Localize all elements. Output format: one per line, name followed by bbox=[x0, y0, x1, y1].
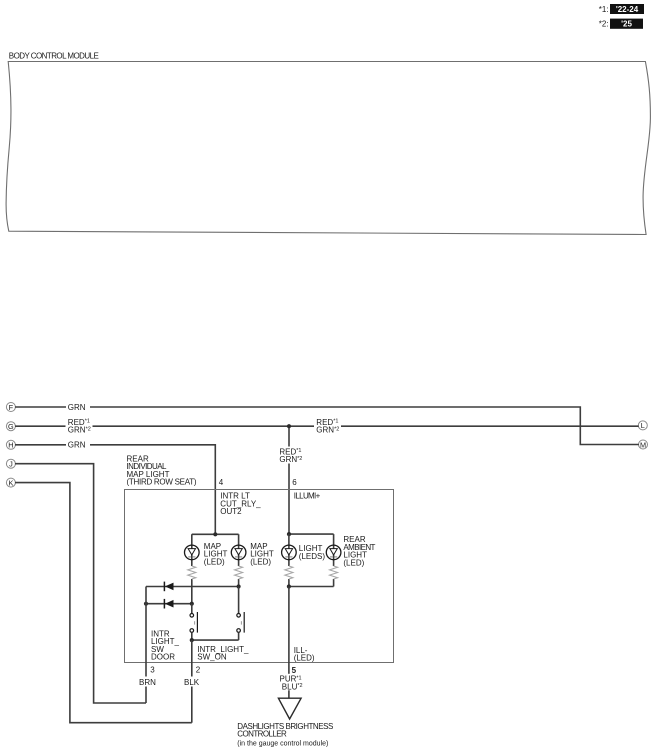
svg-text:GRN: GRN bbox=[68, 441, 86, 450]
junction node ill bus bbox=[287, 584, 291, 588]
on switch SW_ON bbox=[237, 587, 244, 641]
note *2 value box '25 bbox=[610, 19, 643, 29]
wire junction to pin 6 (RED/GRN) bbox=[288, 426, 290, 534]
connector pin F bbox=[6, 403, 15, 412]
junction node lamp1/diode2 bbox=[190, 602, 194, 606]
pin 3 number bbox=[150, 666, 155, 675]
svg-text:(LED): (LED) bbox=[294, 654, 315, 663]
wire illumi bus bbox=[289, 533, 334, 535]
rear individual map light module box bbox=[125, 490, 394, 663]
svg-text:3: 3 bbox=[150, 666, 155, 675]
resistor lamp1 bbox=[188, 566, 196, 579]
svg-text:OUT2: OUT2 bbox=[220, 507, 242, 516]
svg-text:6: 6 bbox=[292, 478, 297, 487]
connector pin M bbox=[639, 440, 648, 449]
wire label RED*1 GRN*2 (pin 6 drop) bbox=[278, 447, 304, 465]
svg-text:K: K bbox=[8, 478, 13, 487]
wire J to BRN pin 3 bbox=[15, 464, 146, 703]
wire label GRN (H) bbox=[66, 440, 90, 450]
connector pin L bbox=[638, 421, 647, 430]
junction node pin6 bus bbox=[287, 532, 291, 536]
pin 2 number bbox=[196, 666, 201, 675]
label INTR LIGHT_ SW DOOR bbox=[151, 629, 180, 661]
light (LEDS) lamp bbox=[282, 545, 297, 560]
wire diode row 1 bbox=[146, 586, 239, 588]
svg-text:BLK: BLK bbox=[184, 678, 200, 687]
map light 2 (LED) lamp bbox=[231, 545, 246, 560]
svg-text:2: 2 bbox=[196, 666, 201, 675]
svg-text:(in the gauge control module): (in the gauge control module) bbox=[237, 740, 328, 747]
svg-text:BODY CONTROL MODULE: BODY CONTROL MODULE bbox=[9, 52, 99, 61]
svg-text:F: F bbox=[9, 403, 14, 412]
resistor lamp3 bbox=[285, 566, 293, 579]
junction node diode2 left bbox=[144, 602, 148, 606]
dashlights brightness controller symbol bbox=[278, 698, 301, 719]
wire G to L (RED/GRN) bbox=[15, 425, 639, 427]
wire map light bus bbox=[192, 533, 239, 535]
svg-text:GRN: GRN bbox=[68, 403, 86, 412]
wire label GRN (F) bbox=[66, 402, 90, 412]
svg-text:M: M bbox=[640, 440, 646, 449]
resistor lamp4 bbox=[330, 566, 338, 579]
wire K to BLK pin 2 bbox=[15, 483, 192, 723]
label MAP LIGHT (LED) 1 bbox=[204, 542, 228, 566]
label MAP LIGHT (LED) 2 bbox=[250, 542, 274, 566]
connector pin G bbox=[6, 422, 15, 431]
svg-text:(LEDS): (LEDS) bbox=[299, 552, 326, 561]
wire lamp2 leads bbox=[238, 534, 240, 586]
svg-text:(LED): (LED) bbox=[343, 558, 364, 567]
diode D1 bbox=[164, 582, 173, 592]
wire lamp1 leads bbox=[191, 534, 193, 603]
label INTR_LIGHT_ SW_ON bbox=[197, 645, 249, 662]
wire lamp4 leads bbox=[333, 534, 335, 586]
wire pin 2 BLK vertical bbox=[191, 640, 193, 723]
svg-text:BRN: BRN bbox=[139, 678, 156, 687]
connector pin K bbox=[6, 478, 15, 487]
label LIGHT (LEDS) bbox=[299, 544, 326, 561]
svg-text:'25: '25 bbox=[621, 20, 632, 29]
svg-text:H: H bbox=[8, 441, 13, 450]
junction node switch bus bbox=[190, 638, 194, 642]
note *1 value box '22-24 bbox=[610, 4, 644, 14]
svg-text:J: J bbox=[9, 460, 13, 469]
wire H to pin 4 (GRN) bbox=[15, 445, 215, 535]
wire label BRN bbox=[137, 677, 159, 687]
pin 4 number bbox=[219, 478, 224, 487]
svg-text:L: L bbox=[641, 421, 645, 430]
svg-text:G: G bbox=[8, 422, 14, 431]
pin 5 number bbox=[292, 666, 297, 675]
door switch SW_DOOR bbox=[190, 604, 197, 640]
label ILL- (LED) bbox=[294, 646, 315, 663]
svg-text:*2:: *2: bbox=[599, 19, 609, 28]
wire F to M (GRN) bbox=[15, 407, 639, 445]
wire leds bottom bus bbox=[289, 586, 334, 588]
junction node on wire G bbox=[287, 424, 291, 428]
junction node lamp2/diode1 bbox=[237, 584, 241, 588]
wire label PUR*1 BLU*2 bbox=[278, 674, 303, 692]
net label ILLUMI+ bbox=[294, 492, 321, 501]
map light 1 (LED) lamp bbox=[185, 545, 200, 560]
wire lamp3 leads bbox=[288, 534, 290, 586]
wire label BLK bbox=[182, 677, 201, 687]
resistor lamp2 bbox=[235, 566, 243, 579]
svg-text:4: 4 bbox=[219, 478, 224, 487]
svg-text:SW_ON: SW_ON bbox=[197, 653, 227, 662]
note *2 label bbox=[599, 19, 609, 28]
junction node pin4 bus bbox=[213, 532, 217, 536]
diode D2 bbox=[164, 599, 173, 609]
label dashlights brightness controller bbox=[237, 722, 333, 747]
connector pin J bbox=[6, 459, 15, 468]
body control module box (torn left/right edges) bbox=[6, 62, 650, 235]
svg-text:(LED): (LED) bbox=[204, 557, 225, 566]
pin 6 number bbox=[292, 478, 297, 487]
wire label RED*1 GRN*2 (G left) bbox=[66, 418, 93, 435]
body control module label bbox=[9, 52, 99, 61]
svg-text:CONTROLLER: CONTROLLER bbox=[237, 730, 287, 739]
svg-text:'22-24: '22-24 bbox=[616, 5, 639, 14]
svg-text:(THIRD ROW SEAT): (THIRD ROW SEAT) bbox=[127, 478, 197, 487]
net label INTR LT CUT_RLY_OUT2 bbox=[220, 492, 261, 516]
wire diode row 2 bbox=[146, 603, 192, 605]
note *1 label bbox=[599, 5, 609, 14]
wire switch bottom bus bbox=[192, 639, 239, 641]
rear individual map light module label bbox=[127, 454, 197, 486]
svg-text:ILLUMI+: ILLUMI+ bbox=[294, 492, 321, 501]
wire ill- to controller bbox=[288, 587, 290, 698]
connector pin H bbox=[6, 440, 15, 449]
svg-text:*1:: *1: bbox=[599, 5, 609, 14]
wire label RED*1 GRN*2 (G right) bbox=[314, 418, 341, 435]
rear ambient light (LED) lamp bbox=[326, 545, 341, 560]
label REAR AMBIENT LIGHT (LED) bbox=[343, 535, 375, 567]
wire left vertical to pin 3 bbox=[145, 587, 147, 704]
svg-text:(LED): (LED) bbox=[250, 557, 271, 566]
svg-text:DOOR: DOOR bbox=[151, 653, 175, 662]
